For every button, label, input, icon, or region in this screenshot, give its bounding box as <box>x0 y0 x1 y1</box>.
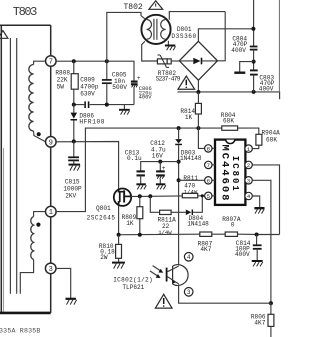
svg-text:1K: 1K <box>126 220 134 227</box>
optocoupler light arrows <box>150 266 163 278</box>
warning triangle above T802 <box>149 1 163 10</box>
pin 7 terminal <box>46 56 57 67</box>
HV snubber bus wire <box>178 92 280 99</box>
warning triangle on left border <box>0 31 8 39</box>
svg-text:5W: 5W <box>57 83 65 90</box>
svg-text:4K7: 4K7 <box>200 246 211 253</box>
svg-text:6: 6 <box>207 178 210 185</box>
svg-text:335A R835B: 335A R835B <box>0 328 41 335</box>
svg-text:T802: T802 <box>124 3 143 12</box>
VCC rail wire (pin1 riser) <box>56 128 222 212</box>
C812 label <box>150 140 166 159</box>
C804 label <box>231 35 247 54</box>
resistor R811 <box>182 193 204 197</box>
D801 label <box>171 26 196 40</box>
svg-text:7: 7 <box>207 162 210 169</box>
svg-text:R811: R811 <box>183 175 198 182</box>
ground symbol on bus <box>119 105 130 115</box>
capacitor C814 <box>253 235 262 261</box>
resistor R807 <box>200 232 225 236</box>
IC802 label <box>113 277 153 291</box>
svg-text:1K: 1K <box>185 114 193 121</box>
svg-text:R904A: R904A <box>262 129 281 136</box>
svg-text:IC801: IC801 <box>230 156 240 192</box>
wire C805 riser to T802 <box>107 12 145 61</box>
svg-text:2KV: 2KV <box>65 192 76 199</box>
junction dot vcc/pin6 wire <box>177 178 181 182</box>
IC801 body <box>215 140 245 205</box>
svg-text:1: 1 <box>49 209 53 217</box>
junction dot C805 top <box>105 59 109 63</box>
chassis tab from C804/C803 node <box>234 62 253 73</box>
resistor R904A <box>252 134 262 148</box>
T802 lower-left lead to RT802 wire <box>142 41 158 61</box>
svg-text:Q801: Q801 <box>96 205 111 212</box>
svg-text:S237-479: S237-479 <box>156 76 181 83</box>
svg-text:400V: 400V <box>259 86 274 93</box>
svg-text:HFR108: HFR108 <box>79 118 104 125</box>
capacitor C804 <box>250 0 258 70</box>
winding upper (pins 7-9) <box>29 61 46 142</box>
C815 ground <box>69 165 81 171</box>
IC801 pin 1 <box>245 145 252 153</box>
pin 1 terminal <box>46 206 57 217</box>
junction dot D804/pin5 <box>201 194 204 197</box>
C809 label <box>80 77 99 98</box>
D806 label <box>79 112 104 125</box>
svg-text:IC802(1/2): IC802(1/2) <box>113 277 153 284</box>
junction dot gate/R811A branch <box>148 194 152 198</box>
junction dot bus/C803 <box>252 90 256 94</box>
svg-text:D3S360: D3S360 <box>171 33 196 40</box>
junction dot R808 top <box>72 59 76 63</box>
IC801 pin 7 <box>205 161 215 169</box>
C813 ground <box>136 184 146 189</box>
junction dot row/C814 <box>255 233 259 237</box>
junction dot rail/D803 <box>177 126 181 130</box>
resistor R809 <box>137 196 143 235</box>
svg-text:7: 7 <box>49 59 53 67</box>
warning triangle at opto <box>155 294 172 308</box>
R814 label <box>180 108 195 121</box>
electrolytic C812 <box>156 162 166 184</box>
R810 label <box>99 243 115 261</box>
svg-text:400V: 400V <box>235 251 250 258</box>
svg-text:3: 3 <box>187 289 191 296</box>
svg-text:C809: C809 <box>80 77 95 84</box>
svg-text:C815: C815 <box>65 178 80 185</box>
svg-text:T803: T803 <box>13 5 38 19</box>
pin3 wire to R806 <box>252 180 271 303</box>
junction dot row/R809 <box>138 233 142 237</box>
opto emitter wire to R806 <box>179 284 271 303</box>
IC801 pin 6 <box>205 177 215 185</box>
VCC filter wire to C813 <box>141 162 179 171</box>
svg-text:4K7: 4K7 <box>254 320 265 327</box>
phasing dot upper winding <box>37 132 41 136</box>
svg-text:1000P: 1000P <box>63 185 82 192</box>
svg-text:+: + <box>137 75 141 82</box>
pin 3 terminal <box>45 263 56 274</box>
svg-text:+: + <box>162 165 166 172</box>
optocoupler IC802 envelope <box>173 265 189 286</box>
C806 label <box>139 86 153 100</box>
svg-text:3: 3 <box>247 178 250 185</box>
resistor R807A <box>225 232 279 236</box>
transformer T803 outline box <box>0 25 51 313</box>
junction dot C812 top <box>158 160 162 164</box>
svg-text:MC44608: MC44608 <box>219 145 231 201</box>
capacitor C803 <box>250 70 258 92</box>
source row wire <box>119 233 200 236</box>
diode D806 <box>71 105 78 142</box>
R811A label <box>158 217 177 237</box>
transformer pin3 ground symbol <box>66 299 77 305</box>
diode D803 <box>175 128 182 145</box>
D801 bottom stub <box>197 80 199 92</box>
R807A label <box>222 216 241 228</box>
posistor T802 <box>141 15 170 44</box>
R806 label <box>251 314 266 327</box>
bottom margin text <box>0 328 41 335</box>
R814/pin8 jog wire <box>198 128 204 148</box>
C812 ground <box>156 184 166 189</box>
svg-text:400V: 400V <box>139 95 153 101</box>
IC801 pin 3 <box>245 177 252 185</box>
surge absorber D801 diamond <box>179 41 217 80</box>
svg-text:500V: 500V <box>112 84 127 91</box>
pin4 ground wire <box>252 196 259 208</box>
IC801 pin 5 <box>205 192 215 200</box>
D801 top stub to C804 wire <box>198 29 253 42</box>
D804 label <box>187 215 209 227</box>
D803 label <box>180 149 202 162</box>
C815 label <box>63 178 82 199</box>
svg-text:4: 4 <box>187 254 191 261</box>
junction dot C804/C803 <box>252 60 256 64</box>
R811A / D804 branch wire <box>150 196 159 212</box>
svg-text:TLP621: TLP621 <box>122 284 144 291</box>
Q801 source wire <box>118 206 120 235</box>
D801 right vertex riser <box>218 12 226 61</box>
R810 ground <box>112 263 125 269</box>
svg-text:1N4148: 1N4148 <box>187 220 209 227</box>
opto pin 3 marker <box>184 288 193 297</box>
svg-text:8: 8 <box>207 146 210 153</box>
svg-text:1N4148: 1N4148 <box>180 155 202 162</box>
transformer T803 label <box>13 5 38 19</box>
junction dot D806/C815 <box>72 139 76 143</box>
resistor R804 <box>222 126 259 134</box>
junction dot gate/R809 <box>138 194 142 198</box>
svg-text:2: 2 <box>247 162 250 169</box>
svg-text:630V: 630V <box>80 91 95 98</box>
svg-text:2W: 2W <box>100 254 108 261</box>
R811 label <box>183 175 198 195</box>
T802 right lead to top wire <box>169 12 225 20</box>
junction dot bus/R814 <box>196 90 200 94</box>
phasing dot lower winding <box>36 223 40 227</box>
svg-text:400V: 400V <box>231 47 246 54</box>
C803 label <box>259 74 275 92</box>
junction dot bus/C805 <box>105 103 109 107</box>
junction dot C804 top <box>251 27 255 31</box>
optocoupler phototransistor <box>166 266 179 284</box>
svg-text:2SC2645: 2SC2645 <box>87 215 116 222</box>
warning triangle at HV bus <box>178 76 195 89</box>
resistor R811A <box>160 210 186 214</box>
junction dot bus/D806 <box>72 103 76 107</box>
VCC node vertical wire (D803 cathode to opto) <box>178 145 180 265</box>
T802 chassis ground <box>165 41 176 51</box>
wire right edge riser <box>278 0 280 92</box>
IC801 part number text <box>219 145 240 201</box>
junction dot vcc/C812 wire <box>177 160 181 164</box>
junction dot source/R810 <box>117 233 121 237</box>
RT802 label <box>156 70 181 83</box>
R804 label <box>221 112 236 125</box>
svg-text:16V: 16V <box>152 152 163 159</box>
posistor T802 label <box>124 3 143 12</box>
pin6 wire <box>179 179 205 181</box>
thermistor RT802 <box>157 55 179 67</box>
svg-text:1/4W: 1/4W <box>184 188 198 195</box>
svg-text:0: 0 <box>231 221 235 228</box>
pin 9 terminal <box>46 137 57 148</box>
capacitor C815 <box>68 141 79 164</box>
wire pin9 to Q801 drain <box>56 142 119 189</box>
transformer pin3 ground wire <box>56 268 71 298</box>
IC801 pin 2 <box>245 161 252 169</box>
svg-text:68K: 68K <box>266 136 277 143</box>
MOSFET Q801 <box>114 189 131 206</box>
R807 label <box>198 240 213 253</box>
svg-text:68K: 68K <box>223 118 234 125</box>
svg-text:3: 3 <box>49 266 53 274</box>
winding lower (pins 1-3) <box>20 212 45 294</box>
R808 label <box>55 70 70 91</box>
pin4 ground symbol <box>254 208 264 213</box>
C814 ground <box>252 261 263 266</box>
svg-text:4700p: 4700p <box>80 84 99 91</box>
gate row wire <box>131 195 182 198</box>
resistor R808 <box>71 61 78 104</box>
junction dot rail/R814 <box>196 126 200 130</box>
IC801 pin 8 <box>205 145 215 153</box>
IC801 pin 4 <box>245 192 252 200</box>
Q801 label <box>87 205 116 222</box>
svg-text:9: 9 <box>49 139 53 147</box>
resistor R810 <box>116 235 122 263</box>
electrolytic C806 <box>131 75 141 104</box>
resistor R806 <box>268 303 274 337</box>
C814 label <box>235 240 251 258</box>
svg-text:5: 5 <box>207 193 210 200</box>
ground bus under C805 <box>74 104 134 106</box>
junction dot R806 top <box>269 301 273 305</box>
capacitor C813 <box>137 171 145 184</box>
transformer right rail wire <box>50 25 52 313</box>
resistor R814 <box>195 92 201 128</box>
C813 label <box>125 149 142 162</box>
R809 label <box>122 214 137 227</box>
C805 label <box>112 72 127 91</box>
svg-text:0.1u: 0.1u <box>127 155 142 162</box>
transformer T803 core <box>10 38 16 294</box>
pin2 feedback wire <box>252 165 279 235</box>
wire pin7 to C806 corner <box>56 61 134 81</box>
diode D804 <box>186 196 203 215</box>
opto pin 4 marker <box>184 252 193 261</box>
capacitor C809 <box>85 101 89 108</box>
capacitor C805 <box>102 61 112 104</box>
R904A label <box>262 129 281 143</box>
